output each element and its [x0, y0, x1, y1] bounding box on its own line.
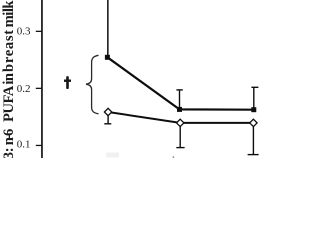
series2 error bar cap (point 1) [104, 123, 111, 124]
cropped x-axis tick label remnant under point 1 [106, 153, 119, 158]
svg-text:0.3: 0.3 [17, 25, 31, 37]
series2 error bar cap (point 3) [248, 154, 259, 155]
series2 marker diamond 2 [177, 119, 184, 126]
series1 error bar (point 1, upper, cropped at top) [107, 0, 109, 55]
series1 error bar (point 3, upper) [253, 88, 254, 109]
y-axis line [41, 0, 43, 158]
series1 marker square 1 [105, 55, 110, 60]
series2 marker diamond 1 [104, 108, 111, 115]
tick 0.3 [36, 31, 42, 32]
cropped x-axis tick label remnant under point 2 [172, 156, 174, 159]
curly brace annotation [86, 55, 99, 114]
tick 0.2 [36, 88, 42, 89]
tick 0.1 [36, 145, 42, 146]
series1 error bar cap (point 3) [251, 87, 258, 88]
series2 error bar (point 1, lower) [107, 114, 108, 124]
series1 line (filled squares) [107, 57, 253, 109]
series1 marker square 3 [251, 107, 256, 112]
svg-text:3:n-6PUFAinbreastmilk: 3:n-6PUFAinbreastmilk [1, 0, 17, 158]
series2 marker diamond 3 [250, 119, 257, 126]
series2 error bar (point 2, lower) [180, 125, 181, 147]
series1 error bar (point 2, upper) [179, 90, 180, 108]
series2 line (open diamonds) [108, 112, 253, 123]
dagger annotation [64, 76, 71, 89]
series1 error bar cap (point 2) [176, 89, 182, 90]
svg-text:0.1: 0.1 [17, 139, 31, 151]
series2 error bar cap (point 2) [176, 147, 184, 148]
svg-text:0.2: 0.2 [17, 83, 31, 95]
series1 marker square 2 [177, 107, 182, 112]
series2 error bar (point 3, lower) [253, 125, 254, 154]
